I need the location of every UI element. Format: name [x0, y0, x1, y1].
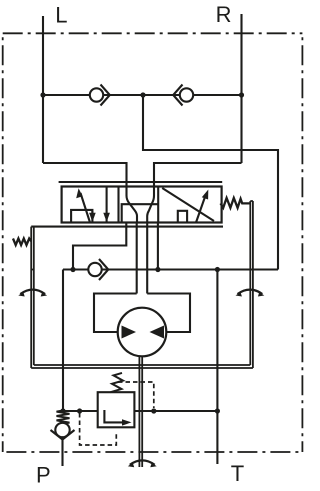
svg-text:P: P [36, 462, 51, 487]
node: pilot tap right [151, 408, 156, 413]
left box vertical down arrow [106, 187, 108, 222]
middle box inner bridge [122, 204, 159, 222]
check valve CV3 (in return run) [88, 259, 108, 280]
svg-text:T: T [231, 461, 244, 486]
wire: P branch down [62, 270, 64, 412]
pilot line (dashed) drain loop under relief [80, 413, 117, 445]
valve divider 1 [117, 187, 119, 223]
left centering spring [13, 239, 31, 246]
rotation arc right [238, 290, 263, 294]
right feedback linkage (double line) [250, 201, 253, 368]
svg-text:L: L [55, 2, 67, 27]
relief valve spring [111, 373, 124, 392]
wire: P port stub [61, 440, 63, 467]
wire: valve port 2 to metering motor [136, 223, 138, 294]
wire: line above valve [59, 181, 223, 183]
node: T line tee [215, 408, 220, 413]
steering column double line [139, 356, 142, 467]
wire: mid junction down, over and down right side [143, 95, 278, 270]
check valve CV1 (left, ball+seat) [90, 85, 110, 106]
right box bridge [178, 211, 187, 223]
valve divider 2 [157, 187, 159, 223]
node: pilot tap left [77, 408, 82, 413]
wire: cross line between check valves [43, 94, 242, 96]
valve right centering spring [221, 198, 251, 208]
node: port1 junction [70, 267, 75, 272]
wire: R side down to valve port [154, 163, 242, 187]
inlet check valve spring [57, 411, 70, 424]
right box long diagonal [162, 188, 214, 221]
wire: valve port 4 to tank run [157, 223, 159, 270]
wire: valve port 3 to metering motor [146, 223, 148, 294]
left feedback linkage (double line) [31, 227, 34, 368]
motor triangle right [150, 326, 165, 339]
wire: L port vertical [42, 16, 44, 163]
node: mid junction [140, 92, 145, 97]
motor triangle left [122, 326, 137, 339]
node: port4 junction [155, 267, 160, 272]
wire: L side down to valve port [43, 163, 127, 187]
valve main box [62, 187, 222, 223]
small rung on left linkage [31, 269, 34, 271]
middle box funnel right [147, 187, 154, 223]
wire: T branch down [216, 270, 218, 465]
wire: relief outlet line to T [134, 410, 217, 412]
rotation arc left [20, 290, 45, 294]
inlet check valve ball [55, 423, 69, 437]
wire: relief inlet line [63, 410, 98, 412]
svg-text:R: R [216, 2, 232, 27]
inlet check valve seat [51, 430, 75, 440]
wire: valve port 1 to tank run [73, 223, 126, 270]
steering wheel arc [130, 460, 155, 464]
mechanical linkage double horizontal [31, 365, 253, 368]
relief valve body [98, 392, 135, 427]
middle box funnel left [127, 187, 138, 223]
metering motor circle [118, 308, 167, 357]
relief valve internal arrow [104, 410, 126, 422]
metering motor loop [94, 294, 137, 333]
left box bridge with down arrow [71, 210, 92, 223]
pilot line (dashed) from spring to outlet [118, 382, 154, 408]
wire: R port vertical [240, 14, 242, 163]
wire: tank/return run [63, 268, 278, 270]
wire: line below valve (to left linkage) [31, 226, 223, 228]
check valve CV2 (right, ball+seat) [173, 85, 193, 106]
node: L line junction [40, 92, 45, 97]
node: T branch junction [215, 267, 220, 272]
node: R line junction [239, 92, 244, 97]
right box diagonal arrow [196, 194, 206, 223]
node: P check junction [60, 408, 65, 413]
left box diagonal arrow [81, 193, 91, 223]
